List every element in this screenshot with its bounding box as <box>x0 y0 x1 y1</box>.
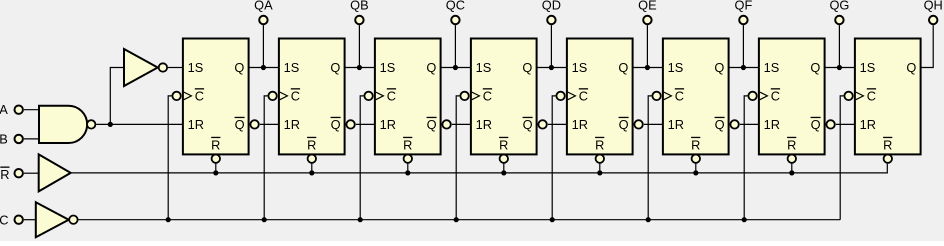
wire QG drop <box>838 25 840 67</box>
wire clock line (U4 output along bottom to FF8 branch) <box>79 219 841 221</box>
junction node QF <box>741 65 746 70</box>
svg-text:Q: Q <box>330 60 340 75</box>
svg-text:QA: QA <box>254 0 273 12</box>
wire Q(bar)1 to FF2 1R <box>260 123 279 125</box>
wire QF drop <box>742 25 744 67</box>
FF3 clock pin C with bubble <box>364 88 396 103</box>
buffer U3 (reset) <box>39 154 71 191</box>
inverter U4 (clock) <box>36 202 78 237</box>
junction node QC <box>453 65 458 70</box>
terminal A <box>15 106 23 114</box>
wire Q(bar)6 to FF7 1R <box>740 123 759 125</box>
FF2 reset pin R(bar) with bubble <box>307 137 316 163</box>
svg-text:Q: Q <box>811 117 821 132</box>
junction clock line at FF5 <box>550 217 555 222</box>
wire FF6 reset stub <box>695 163 697 173</box>
junction NAND output node <box>108 122 113 127</box>
FF5 pin Q(bar) with bubble <box>619 117 643 132</box>
wire FF7 reset stub <box>791 163 793 173</box>
svg-text:Q: Q <box>522 60 532 75</box>
junction reset line at FF4 <box>501 170 506 175</box>
svg-text:Q: Q <box>234 60 244 75</box>
FF4 pin Q(bar) with bubble <box>523 117 547 132</box>
FF1 pin Q(bar) with bubble <box>235 117 259 132</box>
svg-text:Q: Q <box>619 117 629 132</box>
FF6 pin Q(bar) with bubble <box>715 117 739 132</box>
junction node QA <box>261 65 266 70</box>
svg-text:Q: Q <box>714 60 724 75</box>
FF7 pin Q(bar) with bubble <box>811 117 835 132</box>
FF2 clock pin C with bubble <box>268 88 300 103</box>
svg-text:1R: 1R <box>572 117 588 132</box>
junction reset line at FF7 <box>789 170 794 175</box>
wire QD drop <box>550 25 552 67</box>
wire FF8 clock branch <box>840 96 844 220</box>
junction node QG <box>837 65 842 70</box>
NAND gate U1 <box>39 106 95 143</box>
terminal QD <box>547 16 555 24</box>
svg-text:1S: 1S <box>764 60 780 75</box>
wire FF4 reset stub <box>503 163 505 173</box>
svg-text:R: R <box>403 138 412 153</box>
wire Q8 to terminal QH <box>921 25 934 67</box>
wire Q(bar)4 to FF5 1R <box>548 123 567 125</box>
svg-text:Q: Q <box>810 60 820 75</box>
wire FF5 reset stub <box>599 163 601 173</box>
FF1 clock pin C with bubble <box>172 88 204 103</box>
wire R terminal to buffer U3 <box>24 172 39 174</box>
svg-text:C: C <box>291 88 300 103</box>
terminal QB <box>355 16 363 24</box>
junction clock line at FF3 <box>358 217 363 222</box>
svg-text:C: C <box>483 88 492 103</box>
svg-text:1S: 1S <box>860 60 876 75</box>
terminal QG <box>835 16 843 24</box>
svg-text:1S: 1S <box>476 60 492 75</box>
wire FF3 clock branch <box>360 96 364 220</box>
svg-text:C: C <box>195 88 204 103</box>
svg-text:1R: 1R <box>188 117 204 132</box>
FF5 clock pin C with bubble <box>556 88 588 103</box>
svg-text:A: A <box>0 102 8 117</box>
terminal B <box>15 135 23 143</box>
junction clock line at FF1 <box>166 217 171 222</box>
FF4 reset pin R(bar) with bubble <box>499 137 508 163</box>
input label R(bar) <box>0 167 9 182</box>
terminal R <box>15 169 23 177</box>
flip-flop FF7 body <box>759 39 825 155</box>
wire Q(bar)3 to FF4 1R <box>452 123 471 125</box>
svg-text:1R: 1R <box>476 117 492 132</box>
wire NAND output to FF1 1R <box>96 123 183 125</box>
flip-flop FF8 body <box>855 39 921 155</box>
flip-flop FF5 body <box>567 39 633 155</box>
svg-text:C: C <box>579 88 588 103</box>
svg-text:1R: 1R <box>860 117 876 132</box>
svg-text:QE: QE <box>638 0 657 12</box>
FF6 clock pin C with bubble <box>652 88 684 103</box>
svg-text:Q: Q <box>235 117 245 132</box>
svg-text:R: R <box>0 167 9 182</box>
wire Q5 to FF6 1S <box>633 67 663 69</box>
wire Q1 to FF2 1S <box>249 67 279 69</box>
flip-flop FF1 body <box>183 39 249 155</box>
wire Q3 to FF4 1S <box>441 67 471 69</box>
wire B to NAND <box>24 138 40 140</box>
svg-text:1S: 1S <box>668 60 684 75</box>
svg-text:R: R <box>211 138 220 153</box>
svg-text:R: R <box>595 138 604 153</box>
svg-text:1S: 1S <box>380 60 396 75</box>
svg-text:R: R <box>883 138 892 153</box>
FF7 clock pin C with bubble <box>748 88 780 103</box>
svg-text:1S: 1S <box>572 60 588 75</box>
wire FF2 reset stub <box>311 163 313 173</box>
svg-text:C: C <box>771 88 780 103</box>
wire FF6 clock branch <box>648 96 652 220</box>
svg-text:1R: 1R <box>284 117 300 132</box>
FF6 reset pin R(bar) with bubble <box>691 137 700 163</box>
terminal QC <box>451 16 459 24</box>
wire Q7 to FF8 1S <box>825 67 855 69</box>
wire NAND node up to inverter U2 input <box>110 68 124 125</box>
junction clock line at FF4 <box>454 217 459 222</box>
svg-text:QC: QC <box>446 0 465 12</box>
svg-text:QG: QG <box>829 0 849 12</box>
FF7 reset pin R(bar) with bubble <box>787 137 796 163</box>
junction reset line at FF3 <box>405 170 410 175</box>
wire QA drop <box>262 25 264 67</box>
junction reset line at FF2 <box>309 170 314 175</box>
wire FF7 clock branch <box>744 96 748 220</box>
junction node QD <box>549 65 554 70</box>
flip-flop FF4 body <box>471 39 537 155</box>
svg-text:QB: QB <box>350 0 369 12</box>
svg-text:C: C <box>867 88 876 103</box>
svg-text:1S: 1S <box>284 60 300 75</box>
wire A to NAND <box>24 109 40 111</box>
svg-text:R: R <box>691 138 700 153</box>
svg-text:Q: Q <box>715 117 725 132</box>
junction node QE <box>645 65 650 70</box>
wire QC drop <box>454 25 456 67</box>
svg-text:1S: 1S <box>188 60 204 75</box>
svg-text:QF: QF <box>735 0 753 12</box>
wire Q6 to FF7 1S <box>729 67 759 69</box>
svg-text:Q: Q <box>618 60 628 75</box>
wire Q4 to FF5 1S <box>537 67 567 69</box>
wire C terminal to inverter U4 <box>24 219 36 221</box>
svg-text:B: B <box>0 131 8 146</box>
svg-text:QD: QD <box>542 0 561 12</box>
wire Q(bar)7 to FF8 1R <box>836 123 855 125</box>
flip-flop FF2 body <box>279 39 345 155</box>
svg-text:QH: QH <box>924 0 943 12</box>
inverter U2 (feeds 1S) <box>124 49 167 86</box>
junction reset line at FF6 <box>693 170 698 175</box>
junction node QB <box>357 65 362 70</box>
FF8 clock pin C with bubble <box>844 88 876 103</box>
wire FF2 clock branch <box>264 96 268 220</box>
junction reset line at FF1 <box>213 170 218 175</box>
junction clock line at FF7 <box>742 217 747 222</box>
svg-text:Q: Q <box>906 60 916 75</box>
svg-text:R: R <box>787 138 796 153</box>
svg-text:1R: 1R <box>380 117 396 132</box>
terminal QA <box>259 16 267 24</box>
junction reset line at FF5 <box>597 170 602 175</box>
flip-flop FF6 body <box>663 39 729 155</box>
wire inverter U2 to FF1 1S <box>168 67 183 69</box>
terminal QE <box>643 16 651 24</box>
svg-text:C: C <box>0 213 9 228</box>
svg-text:C: C <box>387 88 396 103</box>
wire QB drop <box>358 25 360 67</box>
svg-text:R: R <box>307 138 316 153</box>
wire reset line (U3 output along bottom to FF8) <box>72 164 888 173</box>
junction clock line at FF6 <box>646 217 651 222</box>
svg-text:C: C <box>675 88 684 103</box>
FF8 reset pin R(bar) with bubble <box>883 137 892 163</box>
wire FF3 reset stub <box>407 163 409 173</box>
svg-text:Q: Q <box>427 117 437 132</box>
FF3 reset pin R(bar) with bubble <box>403 137 412 163</box>
FF4 clock pin C with bubble <box>460 88 492 103</box>
FF1 reset pin R(bar) with bubble <box>211 137 220 163</box>
svg-text:Q: Q <box>331 117 341 132</box>
FF3 pin Q(bar) with bubble <box>427 117 451 132</box>
svg-text:Q: Q <box>426 60 436 75</box>
wire QE drop <box>646 25 648 67</box>
FF5 reset pin R(bar) with bubble <box>595 137 604 163</box>
svg-text:R: R <box>499 138 508 153</box>
terminal QF <box>739 16 747 24</box>
svg-text:1R: 1R <box>668 117 684 132</box>
wire FF4 clock branch <box>456 96 460 220</box>
svg-text:1R: 1R <box>764 117 780 132</box>
wire FF1 clock branch <box>168 96 172 220</box>
junction clock line at FF2 <box>262 217 267 222</box>
wire Q(bar)2 to FF3 1R <box>356 123 375 125</box>
terminal QH <box>929 16 937 24</box>
FF2 pin Q(bar) with bubble <box>331 117 355 132</box>
wire FF5 clock branch <box>552 96 556 220</box>
wire FF1 reset stub <box>215 163 217 173</box>
terminal C <box>15 216 23 224</box>
wire Q(bar)5 to FF6 1R <box>644 123 663 125</box>
svg-text:Q: Q <box>523 117 533 132</box>
wire Q2 to FF3 1S <box>345 67 375 69</box>
flip-flop FF3 body <box>375 39 441 155</box>
